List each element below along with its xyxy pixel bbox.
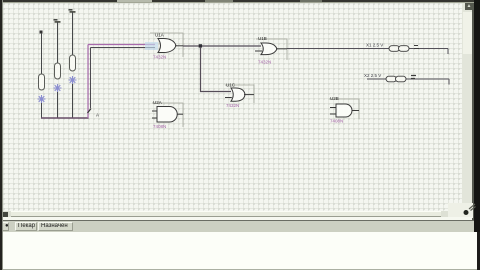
schematic canvas grid [3, 3, 462, 211]
svg-text:U2A: U2A [153, 100, 162, 105]
wire U1A output to U1B [183, 45, 261, 47]
svg-text:X1 2.5 V: X1 2.5 V [366, 43, 383, 48]
svg-text:7432N: 7432N [258, 60, 271, 65]
indicator X1 [366, 43, 419, 52]
wire vertical pair [88, 45, 91, 119]
gate U2B [329, 96, 359, 124]
gate U1A [150, 33, 183, 60]
indicator X2 row wire [367, 78, 449, 80]
svg-text:U1C: U1C [226, 83, 236, 88]
junction [199, 44, 202, 47]
scroll corner diagonal [469, 204, 476, 211]
selection highlight [145, 42, 158, 50]
switch J2 [54, 19, 62, 118]
spreadsheet header [2, 220, 477, 233]
svg-text:X2 2.5 V: X2 2.5 V [364, 73, 381, 78]
wire junction drop [201, 47, 232, 92]
switch J1 [38, 31, 46, 119]
gate U2A [152, 100, 183, 129]
svg-text:7408N: 7408N [330, 119, 343, 124]
gate U1C [225, 83, 254, 109]
wire U1B output to X1 [287, 48, 448, 50]
wire pair to gate U1A [88, 45, 155, 48]
wire bottom bus [41, 117, 89, 119]
svg-text:U1A: U1A [155, 33, 164, 38]
net label A [88, 109, 100, 118]
wire hook down row1 [447, 49, 449, 55]
svg-text:U1B: U1B [258, 36, 267, 41]
gate U1B [255, 36, 287, 65]
svg-text:7432N: 7432N [153, 55, 166, 60]
vertical scrollbar [462, 3, 472, 217]
scroll corner dot [464, 210, 469, 215]
svg-text:7432N: 7432N [226, 103, 239, 108]
horizontal scrollbar [3, 211, 448, 217]
wire hook down row2 [448, 79, 450, 85]
svg-text:7408N: 7408N [153, 124, 166, 129]
svg-text:A: A [96, 113, 99, 118]
indicator X2 [364, 73, 416, 82]
svg-text:U2B: U2B [330, 96, 339, 101]
switch J3 [69, 9, 77, 118]
